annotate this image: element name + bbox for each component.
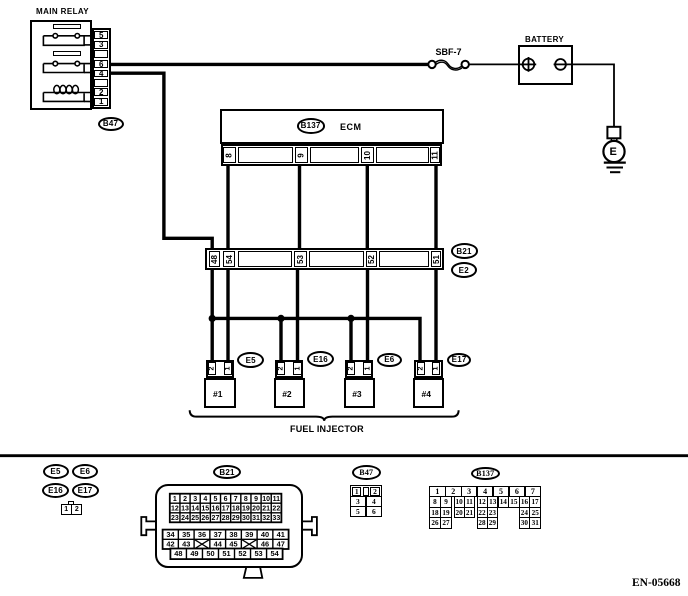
bar pin 54	[223, 251, 236, 267]
relay blank cell b	[94, 79, 108, 87]
B21 shell right tab	[303, 517, 317, 535]
B137 pin group 10-11	[454, 496, 476, 508]
svg-text:24: 24	[181, 515, 189, 522]
relay pin 3	[94, 41, 108, 49]
battery positive terminal	[523, 59, 535, 71]
connector label B137 bottom	[471, 467, 501, 481]
main relay box	[30, 20, 92, 110]
fuse SBF-7 element	[435, 60, 461, 68]
bar pin 52	[366, 251, 378, 267]
connector label E2 mid	[451, 262, 478, 278]
svg-text:46: 46	[261, 540, 269, 549]
relay blank cell a	[94, 50, 108, 58]
svg-text:9: 9	[254, 496, 258, 503]
relay switch1 bracket	[43, 36, 84, 46]
svg-text:34: 34	[166, 530, 175, 539]
injector no2 connector	[275, 360, 303, 378]
bar pin 51	[431, 251, 441, 267]
svg-text:31: 31	[252, 515, 260, 522]
ECM strip blank 2	[310, 147, 359, 163]
bar blank 3	[379, 251, 429, 267]
B47 pinout pin1	[352, 487, 362, 496]
svg-text:54: 54	[270, 549, 279, 558]
injector no4 connector	[414, 360, 442, 378]
connector label B21 mid	[451, 243, 478, 259]
B137 pin group 28-29	[477, 517, 498, 529]
ECM label	[340, 122, 362, 132]
wire branch to injector no2 pin2	[279, 318, 282, 361]
svg-text:12: 12	[171, 506, 179, 513]
injector no2 label	[282, 389, 291, 399]
svg-text:49: 49	[190, 549, 198, 558]
svg-text:50: 50	[206, 549, 214, 558]
B21 pin grid 48-54	[170, 549, 282, 560]
svg-text:10: 10	[262, 496, 270, 503]
connector label E6 bottom	[72, 464, 98, 479]
injector no2 body	[274, 378, 305, 409]
injector no3 pin1 cell	[363, 362, 371, 375]
injector no2 pin2 cell	[277, 362, 285, 375]
wire relay pin4 to B21 pin48	[110, 73, 212, 249]
svg-text:38: 38	[229, 530, 237, 539]
injector connector pinout tab	[68, 501, 74, 506]
relay switch1 contact line	[43, 35, 94, 37]
injector no1 label	[213, 389, 222, 399]
injector no2 pin1 cell	[293, 362, 301, 375]
bar blank 2	[309, 251, 364, 267]
relay pin 4	[94, 70, 108, 78]
svg-text:36: 36	[198, 530, 206, 539]
svg-text:41: 41	[277, 530, 285, 539]
wire ground bus to injector no4 pin2	[212, 318, 420, 361]
svg-text:13: 13	[181, 506, 189, 513]
svg-text:18: 18	[232, 506, 240, 513]
svg-text:52: 52	[238, 549, 246, 558]
connector label B21 bottom	[213, 465, 241, 479]
svg-text:37: 37	[214, 530, 222, 539]
B21 shell bottom tab	[244, 568, 262, 578]
wire B21 pin53 to injector no2 pin1	[296, 269, 299, 361]
ground E connector square	[607, 127, 620, 139]
injector no1 pin1 cell	[224, 362, 232, 375]
svg-text:6: 6	[224, 496, 228, 503]
svg-text:29: 29	[232, 515, 240, 522]
svg-text:43: 43	[182, 540, 190, 549]
relay connector strip B47	[92, 28, 112, 109]
junction node at injector no3 branch	[347, 315, 354, 322]
svg-text:15: 15	[201, 506, 209, 513]
wire B21 pin52 to injector no3 pin1	[366, 269, 369, 361]
injector no4 pin1 cell	[432, 362, 440, 375]
relay coil	[43, 92, 94, 94]
relay pin 5	[94, 31, 108, 39]
svg-text:7: 7	[234, 496, 238, 503]
ECM pin 8	[223, 147, 236, 163]
relay switch2 contact circles	[53, 61, 58, 66]
relay coil bracket	[43, 93, 84, 102]
wire B21 pin51 to injector no4 pin1	[434, 269, 437, 361]
svg-text:11: 11	[273, 496, 281, 503]
B47 pinout blank	[363, 487, 369, 497]
connector label E16 bottom	[42, 483, 69, 498]
svg-text:51: 51	[222, 549, 230, 558]
svg-text:39: 39	[245, 530, 253, 539]
svg-text:3: 3	[193, 496, 197, 503]
svg-text:47: 47	[277, 540, 285, 549]
wire fuse to battery positive	[469, 63, 523, 65]
svg-text:14: 14	[191, 506, 199, 513]
svg-text:30: 30	[242, 515, 250, 522]
junction node at injector no1 branch	[209, 315, 216, 322]
SBF-7 label	[436, 47, 462, 57]
B137 pin row 1-7	[429, 486, 541, 498]
ground E letter	[610, 146, 617, 158]
relay switch1 contact circles	[53, 34, 58, 39]
injector no4 label	[422, 389, 431, 399]
connector label E17	[447, 353, 471, 367]
B137 pin group 20-21	[454, 507, 476, 519]
B21 pin grid 1-33	[170, 494, 282, 523]
connector label E5	[237, 352, 264, 368]
svg-text:23: 23	[171, 515, 179, 522]
fuse terminal circle left	[428, 61, 435, 68]
connector label B137 in ECM	[297, 118, 325, 133]
svg-text:44: 44	[214, 540, 223, 549]
svg-text:20: 20	[252, 506, 260, 513]
ECM strip blank 3	[376, 147, 429, 163]
connector label B47 top	[98, 117, 124, 131]
svg-text:42: 42	[166, 540, 174, 549]
wire B21 pin48 to injector no1 pin2	[210, 269, 213, 361]
svg-text:35: 35	[182, 530, 190, 539]
svg-text:5: 5	[213, 496, 217, 503]
B21 intermediate connector bar	[205, 248, 444, 270]
svg-text:26: 26	[201, 515, 209, 522]
wire battery negative to ground E	[566, 64, 614, 127]
ECM connector strip	[221, 144, 443, 166]
svg-text:40: 40	[261, 530, 269, 539]
injector no1 body	[204, 378, 235, 409]
bar pin 48	[209, 251, 221, 267]
B47 pinout row1 box	[350, 485, 383, 497]
svg-text:4: 4	[203, 496, 207, 503]
connector label B47 bottom	[352, 465, 381, 480]
svg-text:2: 2	[183, 496, 187, 503]
svg-text:33: 33	[272, 515, 280, 522]
B47 pinout grid 3-6	[350, 496, 383, 517]
figure number EN-05668	[632, 577, 681, 589]
battery box	[518, 45, 573, 85]
relay bar1	[53, 24, 81, 29]
MAIN RELAY label	[36, 7, 89, 16]
relay pin 1	[94, 98, 108, 106]
injector no3 label	[352, 389, 361, 399]
B21 connector shell	[155, 484, 303, 568]
B137 pin group 12-17	[477, 496, 541, 508]
connector label E6	[377, 353, 402, 367]
svg-text:17: 17	[222, 506, 230, 513]
svg-text:19: 19	[242, 506, 250, 513]
svg-text:22: 22	[272, 506, 280, 513]
injector no4 body	[413, 378, 444, 409]
wire ECM pin11 to B21 pin51	[434, 165, 437, 250]
B21 pin grid 34-47	[163, 530, 289, 549]
svg-text:27: 27	[212, 515, 220, 522]
ECM box	[220, 109, 444, 144]
ground E circle	[603, 141, 624, 162]
ECM pin 11	[430, 147, 440, 163]
relay bar2	[53, 51, 81, 56]
FUEL INJECTOR label	[290, 424, 364, 434]
B137 pin group 30-31	[519, 517, 541, 529]
ECM pin 10	[361, 147, 374, 163]
injector no1 pin2 cell	[208, 362, 216, 375]
injector connector pinout 1 2	[61, 504, 83, 515]
svg-text:21: 21	[262, 506, 270, 513]
connector label E5 bottom	[43, 464, 69, 479]
junction node at injector no2 branch	[277, 315, 284, 322]
svg-text:53: 53	[254, 549, 262, 558]
svg-text:28: 28	[222, 515, 230, 522]
injector no1 connector	[206, 360, 234, 378]
ECM strip blank 1	[238, 147, 293, 163]
brace fuel injector group	[190, 410, 459, 421]
relay pin 6	[94, 60, 108, 68]
B137 pin group 22-23	[477, 507, 498, 519]
wire ECM pin8 to B21 pin54	[226, 165, 229, 250]
relay pin 2	[94, 88, 108, 96]
svg-text:8: 8	[244, 496, 248, 503]
bar pin 53	[294, 251, 308, 267]
wire relay pin6 to fuse SBF-7 (power feed)	[110, 63, 429, 66]
wire B21 pin54 to injector no1 pin1	[226, 269, 229, 361]
bar blank 1	[238, 251, 292, 267]
svg-text:32: 32	[262, 515, 270, 522]
svg-text:48: 48	[174, 549, 182, 558]
injector no3 pin2 cell	[347, 362, 355, 375]
ECM pin 9	[295, 147, 308, 163]
svg-text:25: 25	[191, 515, 199, 522]
ground symbol hatch	[604, 161, 626, 163]
wire ECM pin9 to B21 pin53	[298, 165, 301, 250]
connector label E16	[307, 351, 334, 367]
relay switch2 contact line	[43, 63, 94, 65]
injector no3 body	[344, 378, 375, 409]
svg-text:1: 1	[173, 496, 177, 503]
separator line	[0, 454, 688, 457]
B137 pin group 18-19	[429, 507, 452, 519]
fuse terminal circle right	[462, 61, 469, 68]
svg-text:45: 45	[229, 540, 237, 549]
wire branch to injector no3 pin2	[349, 318, 352, 361]
battery negative terminal	[555, 59, 566, 70]
relay switch2 bracket	[43, 64, 84, 73]
BATTERY label	[525, 35, 564, 44]
B137 pin group 26-27	[429, 517, 452, 529]
B137 pin group 24-25	[519, 507, 541, 519]
injector no4 pin2 cell	[417, 362, 425, 375]
B137 pin group 8-9	[429, 496, 452, 508]
B21 shell left tab	[141, 517, 155, 535]
B47 pinout pin2	[370, 487, 380, 496]
connector label E17 bottom	[72, 483, 99, 498]
wire ECM pin10 to B21 pin52	[366, 165, 369, 250]
svg-text:16: 16	[212, 506, 220, 513]
injector no3 connector	[345, 360, 373, 378]
